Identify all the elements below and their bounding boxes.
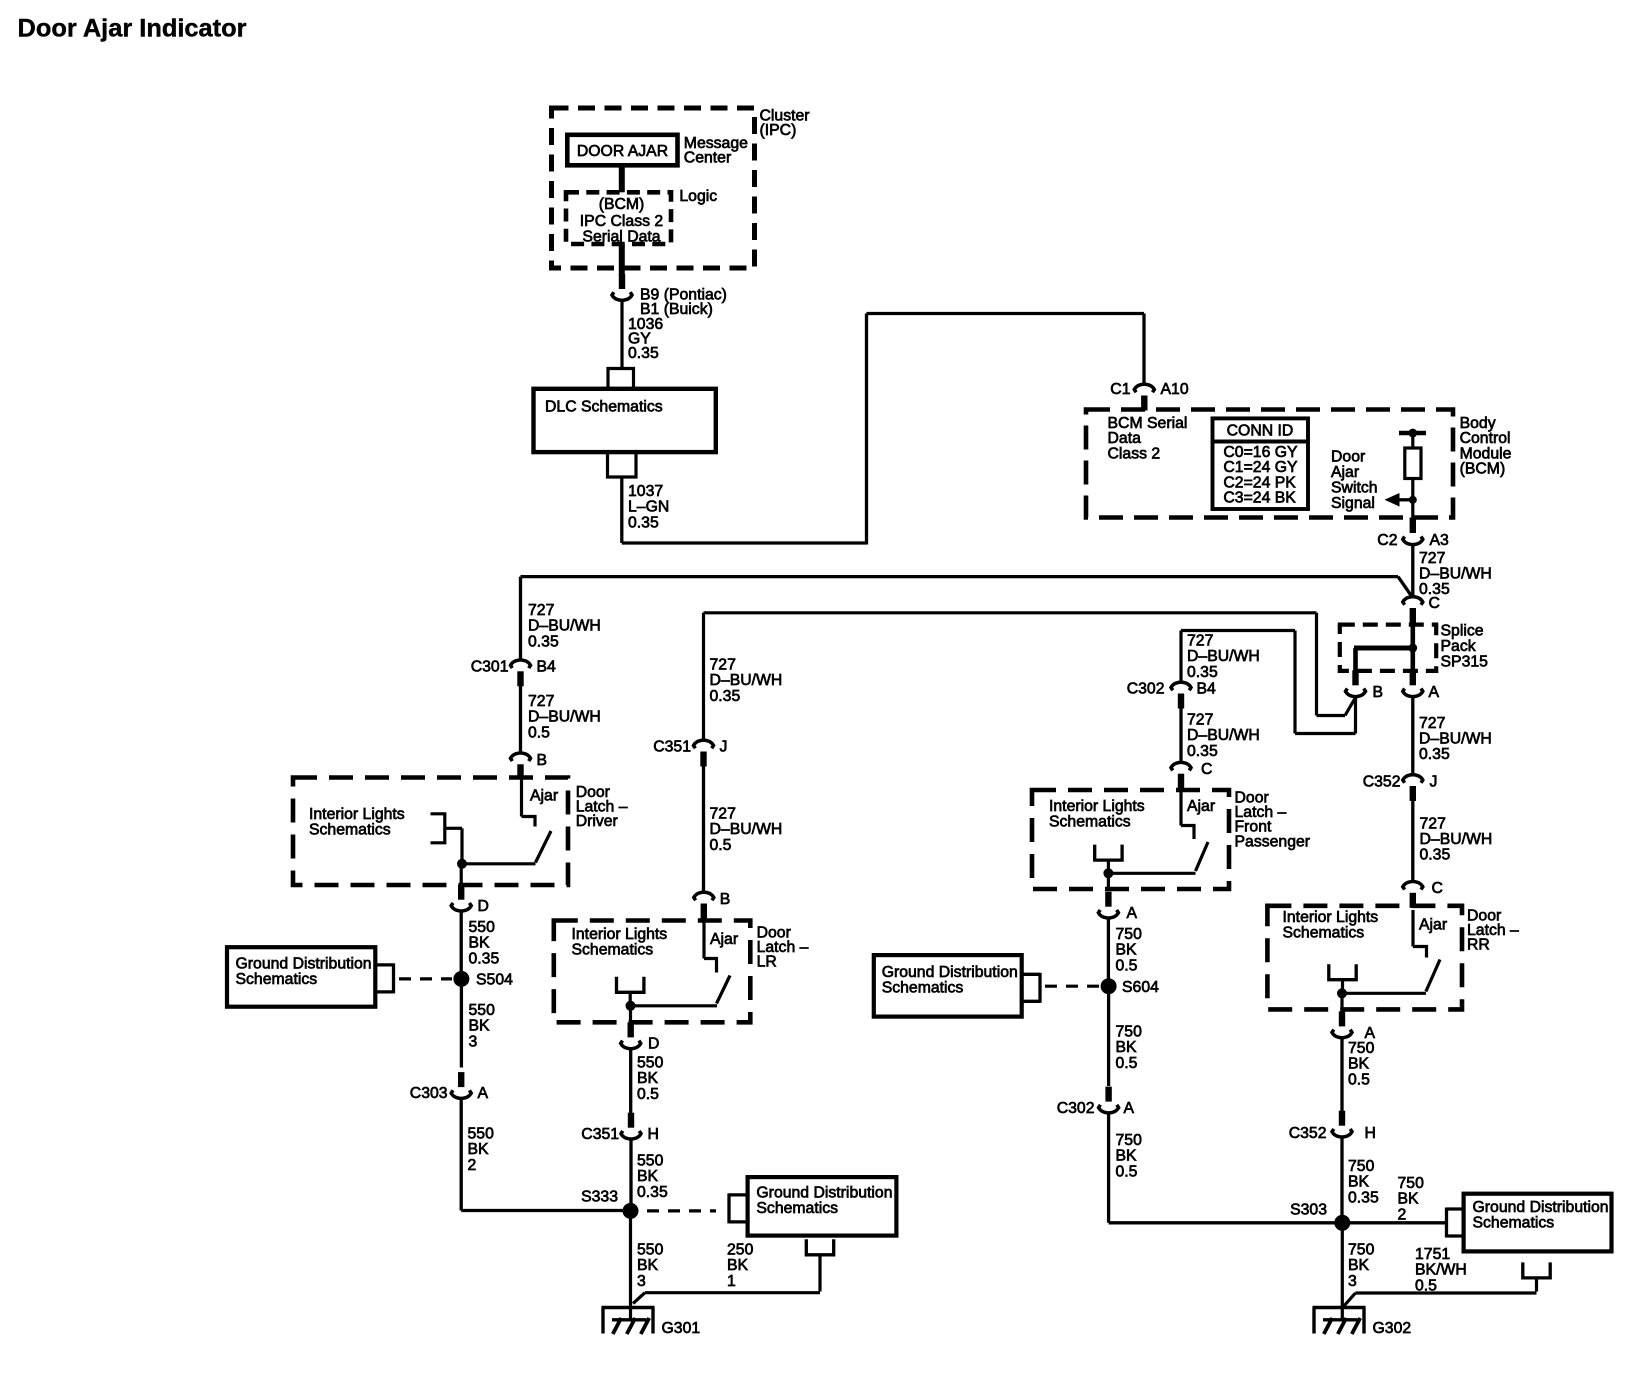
svg-text:BK: BK (469, 1018, 491, 1035)
svg-text:Schematics: Schematics (1049, 814, 1131, 831)
svg-text:(BCM): (BCM) (599, 196, 645, 213)
svg-text:750: 750 (1348, 1242, 1375, 1259)
svg-text:SP315: SP315 (1441, 654, 1489, 671)
svg-text:Ajar: Ajar (1419, 917, 1447, 934)
svg-text:Schematics: Schematics (882, 980, 964, 997)
svg-text:IPC Class 2: IPC Class 2 (580, 213, 663, 230)
svg-text:A: A (478, 1085, 489, 1102)
svg-text:0.5: 0.5 (1348, 1071, 1370, 1088)
svg-text:C303: C303 (410, 1085, 448, 1102)
svg-text:Ajar: Ajar (1331, 464, 1359, 481)
svg-text:J: J (720, 739, 728, 756)
svg-text:H: H (1365, 1125, 1376, 1142)
svg-text:550: 550 (637, 1242, 664, 1259)
svg-text:D: D (478, 898, 489, 915)
svg-text:727: 727 (1187, 712, 1213, 729)
svg-text:727: 727 (1419, 715, 1445, 732)
svg-text:Driver: Driver (576, 813, 618, 830)
svg-text:D–BU/WH: D–BU/WH (1419, 566, 1492, 583)
svg-text:C302: C302 (1127, 681, 1165, 698)
svg-text:250: 250 (727, 1242, 754, 1259)
svg-text:Ajar: Ajar (710, 931, 738, 948)
svg-text:Schematics: Schematics (1283, 925, 1365, 942)
svg-text:B: B (537, 752, 548, 769)
svg-text:727: 727 (1187, 633, 1213, 650)
svg-text:Ground Distribution: Ground Distribution (236, 956, 372, 973)
svg-text:C: C (1201, 761, 1212, 778)
svg-text:BK: BK (1116, 1039, 1138, 1056)
svg-text:C3=24 BK: C3=24 BK (1223, 490, 1296, 507)
svg-text:550: 550 (469, 919, 496, 936)
svg-text:C352: C352 (1289, 1125, 1327, 1142)
svg-text:C: C (1432, 880, 1443, 897)
svg-text:DLC Schematics: DLC Schematics (545, 399, 663, 416)
svg-text:B4: B4 (1197, 681, 1217, 698)
svg-text:Schematics: Schematics (309, 822, 391, 839)
svg-text:3: 3 (637, 1273, 646, 1290)
svg-text:A: A (1127, 905, 1138, 922)
svg-text:Schematics: Schematics (1473, 1215, 1555, 1232)
svg-text:Schematics: Schematics (572, 942, 654, 959)
svg-text:0.35: 0.35 (469, 950, 500, 967)
svg-text:0.35: 0.35 (628, 345, 659, 362)
svg-text:LR: LR (757, 954, 777, 971)
svg-text:Logic: Logic (679, 188, 717, 205)
svg-text:G302: G302 (1373, 1320, 1412, 1337)
svg-text:3: 3 (1348, 1273, 1357, 1290)
svg-text:3: 3 (469, 1033, 478, 1050)
svg-text:750: 750 (1116, 1024, 1143, 1041)
svg-text:S333: S333 (581, 1189, 618, 1206)
svg-text:H: H (648, 1126, 659, 1143)
svg-text:BK: BK (1348, 1257, 1370, 1274)
svg-text:0.35: 0.35 (637, 1184, 668, 1201)
svg-text:727: 727 (528, 602, 554, 619)
svg-text:Splice: Splice (1441, 623, 1484, 640)
svg-text:Interior Lights: Interior Lights (572, 926, 668, 943)
svg-text:2: 2 (1398, 1206, 1407, 1223)
svg-text:BK: BK (1348, 1056, 1370, 1073)
svg-text:D–BU/WH: D–BU/WH (710, 821, 783, 838)
svg-text:C351: C351 (653, 739, 691, 756)
svg-text:Serial Data: Serial Data (582, 228, 660, 245)
svg-text:750: 750 (1116, 926, 1143, 943)
svg-text:550: 550 (469, 1002, 496, 1019)
svg-text:BK: BK (1116, 942, 1138, 959)
svg-text:CONN ID: CONN ID (1227, 423, 1294, 440)
svg-text:0.5: 0.5 (1116, 957, 1138, 974)
svg-text:0.5: 0.5 (1116, 1163, 1138, 1180)
svg-text:G301: G301 (662, 1320, 701, 1337)
svg-text:A10: A10 (1161, 381, 1189, 398)
svg-text:750: 750 (1348, 1040, 1375, 1057)
svg-text:A3: A3 (1430, 532, 1450, 549)
svg-text:Ground Distribution: Ground Distribution (1473, 1199, 1609, 1216)
svg-text:0.35: 0.35 (710, 688, 741, 705)
svg-text:0.5: 0.5 (528, 724, 550, 741)
svg-text:Pack: Pack (1441, 638, 1476, 655)
svg-text:750: 750 (1348, 1158, 1375, 1175)
svg-text:Interior Lights: Interior Lights (309, 806, 405, 823)
svg-text:0.35: 0.35 (1419, 746, 1450, 763)
svg-text:Ajar: Ajar (530, 788, 558, 805)
svg-text:Class 2: Class 2 (1108, 445, 1161, 462)
svg-text:BK: BK (637, 1070, 659, 1087)
svg-text:0.35: 0.35 (1187, 743, 1218, 760)
svg-text:727: 727 (1419, 550, 1445, 567)
svg-text:Ground Distribution: Ground Distribution (756, 1185, 892, 1202)
svg-text:C301: C301 (471, 659, 509, 676)
svg-text:L–GN: L–GN (628, 499, 669, 516)
svg-text:C352: C352 (1363, 774, 1401, 791)
svg-text:727: 727 (710, 806, 736, 823)
svg-text:D–BU/WH: D–BU/WH (710, 672, 783, 689)
svg-text:J: J (1430, 774, 1438, 791)
svg-text:727: 727 (710, 657, 736, 674)
svg-text:0.35: 0.35 (1187, 664, 1218, 681)
svg-text:Passenger: Passenger (1235, 833, 1311, 850)
svg-text:DOOR AJAR: DOOR AJAR (577, 143, 668, 160)
svg-text:550: 550 (468, 1126, 495, 1143)
svg-text:1037: 1037 (628, 483, 663, 500)
svg-text:Door Ajar Indicator: Door Ajar Indicator (18, 15, 247, 43)
svg-text:0.35: 0.35 (628, 514, 659, 531)
svg-text:BK: BK (1398, 1191, 1420, 1208)
svg-text:727: 727 (1420, 816, 1446, 833)
svg-text:A: A (1124, 1100, 1135, 1117)
svg-text:(BCM): (BCM) (1460, 461, 1506, 478)
svg-text:C: C (1429, 595, 1440, 612)
svg-text:1: 1 (727, 1273, 736, 1290)
svg-text:Ajar: Ajar (1187, 798, 1215, 815)
svg-text:1751: 1751 (1415, 1246, 1450, 1263)
svg-text:D–BU/WH: D–BU/WH (1420, 831, 1493, 848)
svg-text:Signal: Signal (1331, 495, 1375, 512)
svg-text:727: 727 (528, 693, 554, 710)
svg-text:0.35: 0.35 (528, 633, 559, 650)
svg-text:C2: C2 (1377, 532, 1397, 549)
svg-text:BK: BK (1116, 1148, 1138, 1165)
svg-text:Schematics: Schematics (236, 971, 318, 988)
svg-text:BK: BK (469, 935, 491, 952)
svg-text:Schematics: Schematics (756, 1200, 838, 1217)
svg-text:0.5: 0.5 (1415, 1277, 1437, 1294)
svg-text:550: 550 (637, 1153, 664, 1170)
svg-text:BK: BK (637, 1168, 659, 1185)
svg-text:550: 550 (637, 1055, 664, 1072)
svg-text:Center: Center (684, 149, 731, 166)
svg-text:C351: C351 (581, 1126, 619, 1143)
svg-text:Door: Door (1331, 449, 1365, 466)
svg-text:0.35: 0.35 (1348, 1189, 1379, 1206)
svg-text:0.5: 0.5 (637, 1086, 659, 1103)
svg-text:0.5: 0.5 (1116, 1055, 1138, 1072)
svg-text:BK: BK (637, 1257, 659, 1274)
svg-text:750: 750 (1116, 1132, 1143, 1149)
svg-text:RR: RR (1467, 937, 1490, 954)
svg-text:D–BU/WH: D–BU/WH (1187, 727, 1260, 744)
svg-text:D–BU/WH: D–BU/WH (1419, 731, 1492, 748)
svg-text:2: 2 (468, 1157, 477, 1174)
svg-text:BK/WH: BK/WH (1415, 1262, 1467, 1279)
svg-text:D–BU/WH: D–BU/WH (528, 618, 601, 635)
svg-text:Ground Distribution: Ground Distribution (882, 964, 1018, 981)
svg-text:0.5: 0.5 (710, 837, 732, 854)
svg-text:D–BU/WH: D–BU/WH (1187, 648, 1260, 665)
svg-text:BK: BK (727, 1257, 749, 1274)
svg-text:750: 750 (1398, 1175, 1425, 1192)
svg-text:Interior Lights: Interior Lights (1049, 798, 1145, 815)
svg-text:S303: S303 (1290, 1202, 1327, 1219)
svg-text:BK: BK (1348, 1174, 1370, 1191)
svg-text:C302: C302 (1057, 1100, 1095, 1117)
svg-text:Switch: Switch (1331, 480, 1378, 497)
svg-text:(IPC): (IPC) (760, 122, 797, 139)
svg-text:B: B (720, 891, 731, 908)
svg-text:B: B (1373, 684, 1384, 701)
svg-text:BK: BK (468, 1141, 490, 1158)
svg-text:D: D (648, 1036, 659, 1053)
svg-text:Interior Lights: Interior Lights (1283, 909, 1379, 926)
svg-text:B4: B4 (537, 659, 557, 676)
svg-text:0.35: 0.35 (1420, 847, 1451, 864)
svg-text:D–BU/WH: D–BU/WH (528, 709, 601, 726)
svg-text:A: A (1429, 684, 1440, 701)
svg-text:S504: S504 (476, 972, 513, 989)
svg-text:S604: S604 (1122, 979, 1159, 996)
svg-text:C1: C1 (1110, 381, 1130, 398)
